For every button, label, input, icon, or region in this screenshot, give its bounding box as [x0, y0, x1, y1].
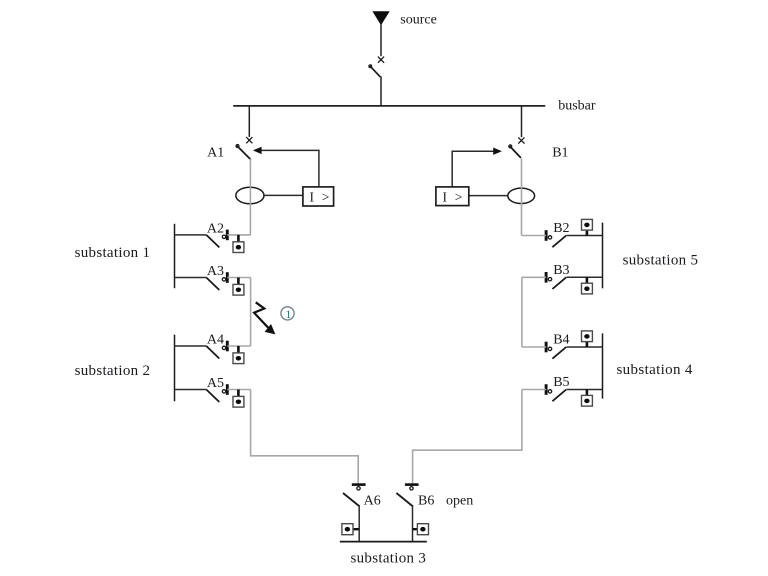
svg-text:B1: B1 [552, 145, 568, 160]
svg-text:A6: A6 [364, 494, 381, 509]
svg-text:A4: A4 [207, 332, 224, 347]
load B3 substation transformer [586, 277, 589, 283]
svg-text:A5: A5 [207, 376, 224, 391]
substation 5 bus [602, 223, 604, 289]
switch A3 [175, 277, 207, 279]
cable B1 to substation 5 [521, 159, 523, 236]
switch B5 [567, 389, 603, 391]
substation 3 bus [340, 541, 427, 543]
main incomer disconnector [378, 57, 384, 63]
trip wire relay to B1 with arrow [452, 151, 494, 187]
wire B6 to substation 3 bus [412, 506, 414, 542]
trip wire relay to A1 with arrow [261, 150, 319, 187]
CT B1 (current transformer) [508, 188, 535, 203]
substation 4 bus [602, 333, 604, 398]
wire source to main switch [380, 25, 382, 57]
svg-text:open: open [446, 494, 473, 509]
substation 2 bus [174, 335, 176, 402]
cable substation 2 to substation 3 (left) [251, 390, 359, 484]
svg-text:substation 1: substation 1 [75, 245, 151, 261]
svg-text:substation 5: substation 5 [623, 252, 699, 268]
svg-text:A3: A3 [207, 264, 224, 279]
load A2 substation transformer [237, 235, 240, 242]
svg-text:I >: I > [443, 190, 465, 205]
switch A2 [175, 234, 207, 236]
wire switch to busbar [380, 76, 382, 106]
CT A1 (current transformer) [236, 187, 264, 204]
load B6 substation transformer [413, 528, 418, 530]
cable A1 to substation 1 [249, 159, 251, 235]
relay B1 I> [436, 187, 469, 206]
svg-text:source: source [400, 12, 437, 27]
svg-text:substation 2: substation 2 [75, 363, 151, 379]
substation 1 bus [174, 224, 176, 288]
svg-text:B2: B2 [553, 221, 569, 236]
svg-text:B6: B6 [418, 494, 434, 509]
wire A6 to substation 3 bus [358, 506, 360, 542]
switch A5 [175, 389, 207, 391]
svg-text:substation 4: substation 4 [617, 362, 693, 378]
fault arrow (short circuit) [254, 302, 270, 329]
switch A6 [352, 483, 366, 486]
load A5 substation transformer [237, 390, 240, 397]
wire busbar to B1 [521, 106, 523, 137]
breaker B1 [518, 137, 524, 143]
switch B3 [567, 276, 603, 278]
svg-text:B5: B5 [553, 375, 569, 390]
busbar [233, 105, 545, 107]
load A4 substation transformer [237, 346, 240, 353]
load B4 substation transformer [586, 342, 589, 347]
svg-text:I >: I > [310, 190, 332, 205]
fault id circle 1 [281, 307, 294, 320]
svg-text:B4: B4 [553, 333, 569, 348]
svg-text:1: 1 [285, 307, 291, 321]
wire CT A1 to relay [264, 194, 303, 196]
svg-text:A2: A2 [207, 221, 224, 236]
wire relay to CT B1 [469, 195, 508, 197]
load B5 substation transformer [586, 390, 589, 396]
breaker A1 [246, 137, 252, 143]
svg-text:A1: A1 [207, 145, 224, 160]
load A3 substation transformer [237, 278, 240, 285]
cable substation 4 to substation 3 (right) [413, 390, 522, 484]
switch A4 [175, 345, 207, 347]
relay A1 I> [303, 187, 334, 206]
cable substation 5 to substation 4 [521, 277, 523, 347]
switch B4 [567, 346, 603, 348]
wire busbar to A1 [248, 106, 250, 137]
source [372, 11, 389, 25]
load B2 substation transformer [586, 230, 589, 235]
switch B2 [567, 235, 603, 237]
svg-text:substation 3: substation 3 [351, 550, 427, 566]
load A6 substation transformer [353, 528, 359, 530]
cable substation 1 to substation 2 [250, 278, 252, 347]
switch B6 [405, 483, 419, 486]
svg-text:B3: B3 [553, 263, 569, 278]
svg-text:busbar: busbar [558, 98, 596, 113]
